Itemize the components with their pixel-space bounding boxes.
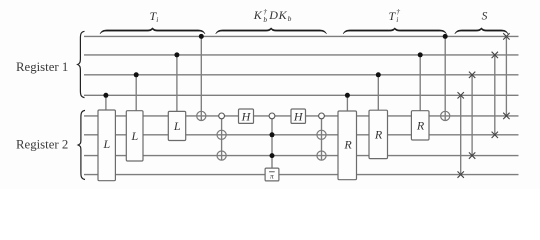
swap cross 2b [469,152,475,158]
gate H2 [291,109,306,124]
wire CNOT1 [200,36,202,120]
overbrace Ti [100,28,205,34]
control dot R1 [345,93,350,98]
wire control L3 [176,55,178,112]
brace register2 [78,110,85,179]
target CNOT2 [441,111,450,120]
control dot CNOT1 [199,34,204,39]
wire control R3 [419,55,421,111]
wire control L1 [105,95,107,110]
control dot D w3 [270,153,275,158]
wire reg1 q4 [84,94,519,96]
label Tidag [389,7,401,24]
control dot L1 [103,93,108,98]
target Kb w2 [217,130,226,139]
wire column D [271,116,273,168]
wire reg2 q3 [84,155,519,157]
control dot CNOT2 [443,34,448,39]
control dot R2 [376,72,381,77]
control dot L3 [174,52,179,57]
svg-text:H: H [293,110,304,124]
svg-text:R: R [343,137,352,151]
gate R2 [369,110,388,158]
open control Kb w1 [219,113,225,119]
svg-text:Register 1: Register 1 [16,60,68,74]
overbrace Tidag [343,28,446,34]
wire reg1 q2 [84,54,519,56]
control dot L2 [134,72,139,77]
overbrace S [455,28,508,34]
gate L1 [98,110,115,181]
swap cross 3b [492,132,498,138]
wire control R2 [377,75,379,110]
svg-text:π: π [270,171,274,180]
svg-text:i: i [396,15,398,24]
svg-text:K: K [253,8,263,22]
wire control L2 [135,75,137,111]
wire reg2 q4 [84,174,519,176]
svg-text:D: D [268,8,278,22]
svg-text:L: L [173,119,181,133]
gate R1 [338,111,357,180]
svg-text:K: K [278,8,288,22]
overbrace KbDKb [216,28,327,34]
wire swap4 [505,36,507,116]
wire reg2 q2 [84,134,519,136]
control dot R3 [418,52,423,57]
wire control R1 [346,95,348,111]
wire CNOT2 [444,36,446,120]
swap cross 4b [503,113,509,119]
wire reg1 q3 [84,74,519,76]
wire reg2 q1 [84,115,519,117]
svg-text:b: b [288,14,292,23]
label KbDKb [253,7,292,24]
swap cross 3a [492,52,498,58]
wire swap3 [494,55,496,135]
wire swap2 [471,75,473,156]
wire reg1 q1 [84,35,519,37]
svg-text:H: H [241,110,252,124]
svg-text:L: L [130,129,138,143]
open control Kb2 w1 [319,113,325,119]
brace register1 [78,31,85,97]
gate pi phase [265,168,279,181]
swap cross 4a [503,33,509,39]
wire column Kb2 [321,116,323,160]
control dot D w2 [270,132,275,137]
target Kb2 w2 [317,130,326,139]
gate L3 [168,111,185,140]
svg-text:b: b [263,15,267,24]
svg-text:R: R [374,128,383,142]
gate L2 [126,111,143,161]
svg-text:Register 2: Register 2 [16,137,68,151]
target CNOT1 [197,111,206,120]
target Kb w3 [217,151,226,160]
wire column Kb [221,116,223,160]
swap cross 1b [458,171,464,177]
open control D w1 [269,113,275,119]
swap cross 1a [458,92,464,98]
wire swap1 [460,95,462,174]
target Kb2 w3 [317,151,326,160]
svg-text:R: R [416,118,425,132]
gate H1 [239,109,254,124]
gate R3 [411,111,429,140]
swap cross 2a [469,72,475,78]
svg-text:L: L [103,137,111,151]
svg-text:S: S [482,11,488,23]
